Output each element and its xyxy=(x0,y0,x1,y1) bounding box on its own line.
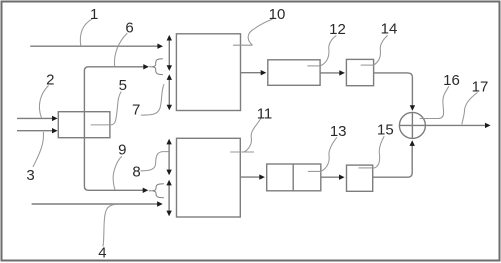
label 3 leader xyxy=(33,132,44,167)
svg-text:8: 8 xyxy=(132,163,140,180)
block 13 (two-part puncturing unit) xyxy=(267,164,321,191)
label 10 leader xyxy=(233,19,272,45)
label 16 xyxy=(443,72,460,89)
adder (circle with cross) xyxy=(399,112,425,138)
wire from block 5 up to line 6 and down to line 9 (tee through block 5) xyxy=(84,64,148,193)
label 8 leader xyxy=(141,152,169,171)
label 9 leader xyxy=(113,156,122,190)
svg-text:1: 1 xyxy=(90,6,98,23)
svg-text:17: 17 xyxy=(472,79,489,96)
label 3 xyxy=(26,167,34,184)
svg-text:12: 12 xyxy=(329,21,346,38)
label 13 leader xyxy=(308,137,337,171)
label 7 leader xyxy=(141,84,164,115)
label 4 leader xyxy=(103,204,120,246)
label 17 xyxy=(472,79,489,96)
label 9 xyxy=(118,141,126,158)
svg-text:5: 5 xyxy=(119,77,127,94)
wire block 14 to adder xyxy=(374,73,416,111)
double arrow lower-left of block 11 xyxy=(166,180,171,216)
brace at input of block 11 xyxy=(149,184,164,198)
label 15 xyxy=(377,122,394,139)
label 6 leader xyxy=(114,33,127,66)
label 10 xyxy=(269,6,286,23)
label 7 xyxy=(132,101,140,118)
label 8 xyxy=(132,163,140,180)
wire block 11 to block 13 xyxy=(240,174,265,179)
label 6 xyxy=(125,20,133,37)
double arrow upper-left of block 10 xyxy=(167,35,172,71)
wire input line 3 (arrow into block 5) xyxy=(17,128,58,133)
label 11 xyxy=(257,105,273,122)
label 15 leader xyxy=(359,136,385,168)
label 5 leader xyxy=(91,92,122,125)
svg-text:6: 6 xyxy=(125,20,133,37)
double arrow lower-left of block 10 xyxy=(167,74,172,110)
label 12 leader xyxy=(307,36,336,66)
block 14 (multiplier) xyxy=(346,59,373,85)
svg-text:9: 9 xyxy=(118,141,126,158)
label 5 xyxy=(119,77,127,94)
label 17 leader xyxy=(462,93,478,125)
block 10 (upper constituent encoder) xyxy=(176,34,240,111)
label 1 xyxy=(90,6,98,23)
svg-text:3: 3 xyxy=(26,167,34,184)
svg-text:2: 2 xyxy=(46,71,54,88)
wire block 13 to block 15 xyxy=(321,175,345,180)
wire block 12 to block 14 xyxy=(320,70,345,75)
label 1 leader xyxy=(80,19,92,46)
label 14 xyxy=(381,20,398,37)
svg-text:15: 15 xyxy=(377,122,394,139)
svg-text:16: 16 xyxy=(443,72,460,89)
block 15 (multiplier) xyxy=(347,165,373,191)
wire adder output line 17 xyxy=(399,123,490,128)
brace at input of block 10 xyxy=(149,59,163,75)
label 4 xyxy=(98,245,106,262)
block 12 (puncturing unit) xyxy=(268,60,320,86)
label 16 leader xyxy=(420,86,449,118)
label 13 xyxy=(330,123,347,140)
svg-text:7: 7 xyxy=(132,101,140,118)
block 11 (lower constituent encoder) xyxy=(177,138,241,217)
svg-text:4: 4 xyxy=(98,245,106,262)
svg-text:13: 13 xyxy=(330,123,347,140)
block 5 (encoder) xyxy=(58,112,110,138)
wire input line 4 (arrow into lower interleaver arrows) xyxy=(32,201,163,206)
wire input line 2 (arrow into block 5) xyxy=(17,116,58,121)
wire input line 1 (arrow into upper interleaver arrows) xyxy=(30,44,163,49)
double arrow upper-left of block 11 xyxy=(166,139,171,175)
label 2 leader xyxy=(39,86,48,118)
label 11 leader xyxy=(230,119,260,153)
svg-text:10: 10 xyxy=(269,6,286,23)
wire block 10 to block 12 xyxy=(241,70,267,75)
label 2 xyxy=(46,71,54,88)
svg-text:14: 14 xyxy=(381,20,398,37)
label 12 xyxy=(329,21,346,38)
label 14 leader xyxy=(361,35,388,65)
wire block 15 to adder xyxy=(373,140,415,177)
svg-text:11: 11 xyxy=(257,105,273,122)
